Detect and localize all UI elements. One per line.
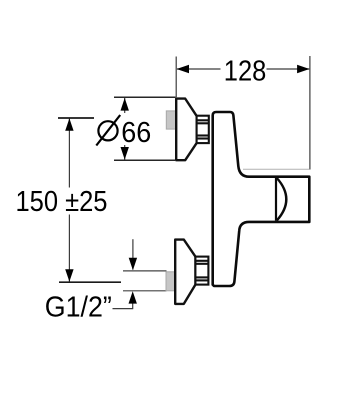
svg-text:66: 66 [121, 117, 151, 149]
svg-text:G1/2”: G1/2” [45, 292, 112, 324]
svg-text:150 ±25: 150 ±25 [16, 186, 108, 218]
svg-text:128: 128 [224, 56, 266, 88]
